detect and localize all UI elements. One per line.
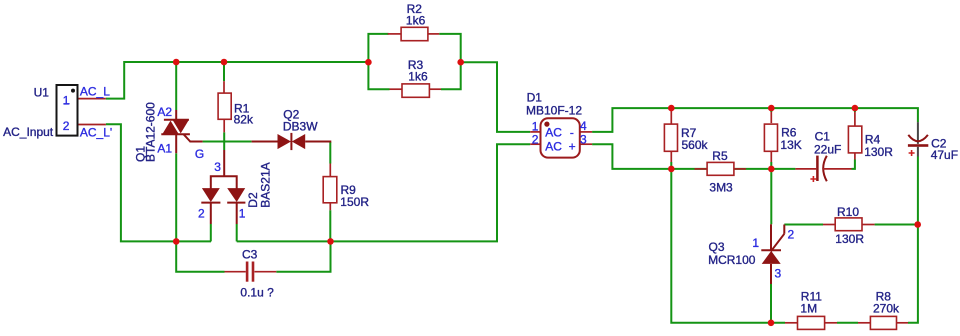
svg-text:AC: AC <box>545 126 562 140</box>
svg-text:0.1u ?: 0.1u ? <box>240 286 274 300</box>
svg-text:2: 2 <box>788 227 795 241</box>
svg-text:2: 2 <box>532 133 539 147</box>
svg-text:150R: 150R <box>340 195 369 209</box>
svg-text:13K: 13K <box>780 138 801 152</box>
svg-text:R10: R10 <box>837 205 859 219</box>
svg-text:BTA12-600: BTA12-600 <box>144 102 158 162</box>
svg-text:22uF: 22uF <box>814 143 841 157</box>
svg-text:560k: 560k <box>682 138 709 152</box>
svg-text:R5: R5 <box>712 149 728 163</box>
svg-text:+: + <box>569 139 576 153</box>
svg-text:1k6: 1k6 <box>408 69 428 83</box>
svg-text:1k6: 1k6 <box>406 13 426 27</box>
svg-text:4: 4 <box>580 119 587 133</box>
svg-text:MCR100: MCR100 <box>708 253 756 267</box>
svg-text:130R: 130R <box>835 232 864 246</box>
svg-text:1: 1 <box>532 119 539 133</box>
svg-text:1: 1 <box>752 236 759 250</box>
svg-text:1: 1 <box>63 93 70 107</box>
svg-text:3: 3 <box>214 160 221 174</box>
svg-text:47uF: 47uF <box>931 148 958 162</box>
svg-text:1M: 1M <box>800 302 817 316</box>
svg-text:82k: 82k <box>234 113 254 127</box>
svg-text:3: 3 <box>775 266 782 280</box>
svg-text:2: 2 <box>63 119 70 133</box>
svg-text:130R: 130R <box>864 145 893 159</box>
svg-text:270k: 270k <box>873 302 900 316</box>
svg-text:D1: D1 <box>527 91 543 105</box>
svg-text:1: 1 <box>239 207 246 221</box>
svg-text:-: - <box>570 126 574 140</box>
svg-text:AC_Input: AC_Input <box>3 125 54 139</box>
svg-text:3: 3 <box>580 133 587 147</box>
svg-text:MB10F-12: MB10F-12 <box>526 104 582 118</box>
svg-text:AC_L': AC_L' <box>80 126 112 140</box>
svg-text:BAS21A: BAS21A <box>258 162 272 207</box>
svg-text:DB3W: DB3W <box>283 120 318 134</box>
svg-text:Q3: Q3 <box>709 240 725 254</box>
svg-text:C1: C1 <box>815 130 831 144</box>
svg-text:3M3: 3M3 <box>709 180 733 194</box>
svg-text:C3: C3 <box>242 247 258 261</box>
svg-text:U1: U1 <box>34 86 50 100</box>
svg-text:AC_L: AC_L <box>80 85 110 99</box>
svg-text:AC: AC <box>545 139 562 153</box>
svg-text:2: 2 <box>198 207 205 221</box>
svg-text:A1: A1 <box>157 142 172 156</box>
svg-text:A2: A2 <box>157 105 172 119</box>
svg-text:G: G <box>195 147 204 161</box>
